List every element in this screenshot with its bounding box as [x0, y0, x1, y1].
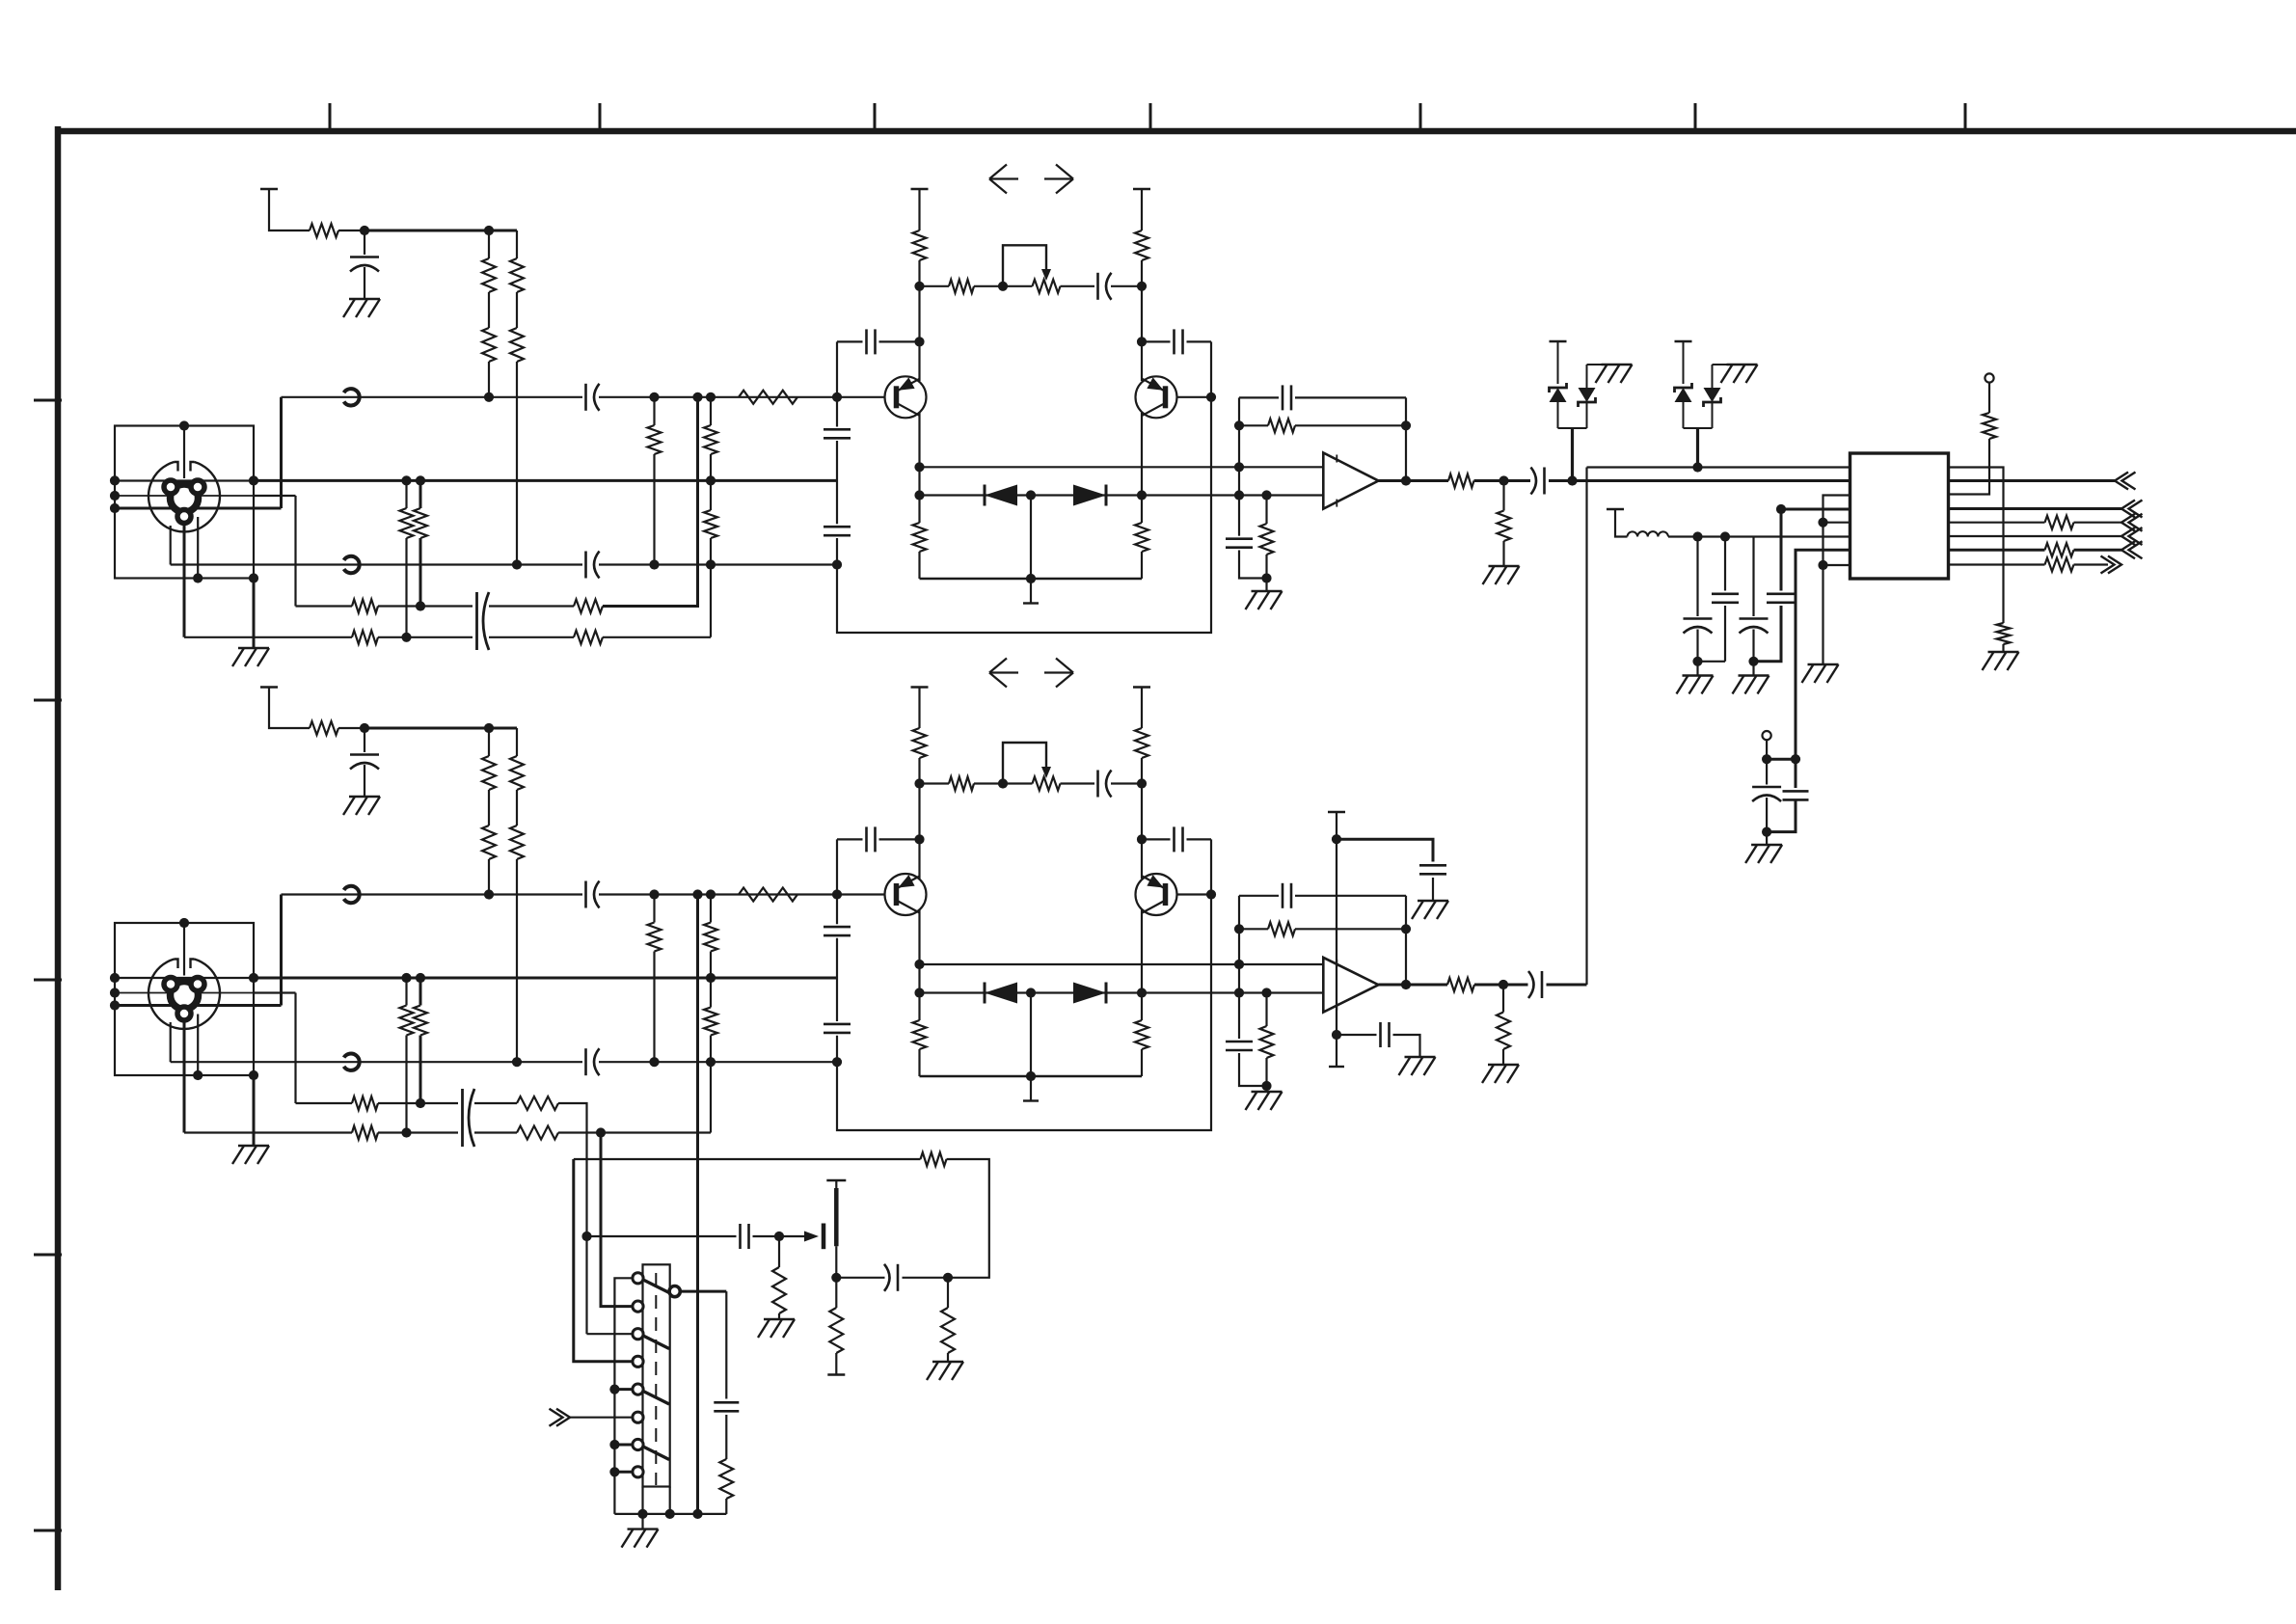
potentiometer VR1 wiper ch1 [1003, 245, 1046, 285]
switch K1 throw 1 [643, 1280, 669, 1293]
wire diode center down ch2 [1030, 993, 1032, 1077]
ground elec [1751, 844, 1782, 846]
capacitor C28 fb opamp ch2 [1282, 883, 1284, 908]
wire decouple c2 [1752, 630, 1754, 662]
wire diode row ch2 [920, 991, 1324, 993]
switch K1 contact 5 [633, 1384, 643, 1394]
wire pair a bot ch1 [405, 538, 407, 637]
jfet Q5 gate arrow [804, 1232, 819, 1242]
contact cold ch2 [344, 1054, 360, 1070]
wire cold riser ch1 [170, 526, 172, 565]
wire Q4 emitter ch2 [1141, 910, 1143, 1021]
node fb base right ch2 [1206, 889, 1216, 899]
node J2 pin1 left [110, 1000, 120, 1010]
node rail sw3 [665, 1509, 675, 1519]
wire Q1 emitter bot ch1 [918, 552, 920, 579]
wire res hot-cold top ch2 [653, 895, 655, 923]
wire J1 shield stem [183, 426, 185, 479]
wire decouple a [1696, 537, 1698, 617]
node J1 box bottom b [249, 573, 258, 582]
node diode row left ch2 [914, 988, 924, 997]
node plus gnd ch1 [1261, 573, 1271, 582]
ground opamp plus ch2 [1252, 1091, 1283, 1093]
node hot thick ch1 [692, 392, 702, 402]
node fb res right ch2 [1401, 924, 1411, 934]
node J2 shield top [179, 918, 189, 928]
wire J1 ground stem [253, 579, 256, 649]
wire chain B ch1 [516, 230, 518, 258]
capacitor C4 big electrolytic ch1 [475, 592, 478, 650]
node hot fb ch2 [832, 889, 842, 899]
node pair a r2 ch2 [401, 1127, 411, 1137]
resistor R33 phantom ch2 [510, 756, 524, 790]
ground phantom ch2 [349, 796, 380, 798]
wire riser pin3 ch2 [294, 993, 296, 1104]
node J2 box bottom b [249, 1070, 258, 1080]
wire elec a2 [1766, 798, 1768, 832]
wire contact1 link [614, 1278, 633, 1514]
capacitor C2 hot ch1 [584, 384, 587, 411]
wire r1 row ch2 c [474, 1102, 517, 1104]
resistor R19 emitter ch1 [913, 523, 927, 552]
wire res branch2 [725, 1499, 727, 1514]
wire dec rail ab [1698, 661, 1726, 663]
node plus gnd ch2 [1261, 1081, 1271, 1091]
capacitor C30 supply ch2 [1419, 864, 1446, 867]
section arrow left top [989, 177, 1018, 179]
wire decouple a2 [1696, 630, 1698, 662]
node diode row right ch2 [1137, 988, 1147, 997]
wire cold row ch1 a [171, 563, 582, 565]
wire jfet source [835, 1246, 837, 1278]
wire chain B mid ch1 [516, 292, 518, 328]
wire fb top row ch1 [1239, 396, 1279, 398]
IC U2 box [1850, 453, 1949, 579]
resistor R6 input ch1 [648, 425, 662, 454]
node chain737 bus ch1 [706, 475, 716, 485]
wire J2 pin stub down [197, 1015, 199, 1076]
wire chain B ch2 [516, 728, 518, 756]
wire emitter rail ch1 [920, 578, 1143, 581]
wire IC rpin8 [1949, 563, 2045, 565]
wire fb res lead2 [947, 1353, 949, 1362]
wire fb res row ch2 a [1239, 928, 1268, 930]
wire C19 to ground [364, 765, 365, 797]
wire phantom ch2 to chains [365, 727, 517, 730]
resistor R53 out load ch2 [1497, 1013, 1510, 1050]
tvs diode pair D6 ground [1727, 364, 1758, 365]
node plus res top ch2 [1261, 988, 1271, 997]
switch K1 contact 4 [633, 1356, 643, 1367]
wire pair a ch2 [405, 978, 407, 1006]
wire r1 row ch1 d [603, 397, 698, 607]
wire inductor out [1668, 535, 1850, 537]
capacitor C15 decouple [1740, 617, 1769, 620]
wire contact8 stub [614, 1471, 633, 1474]
connector chevron out1 [2115, 473, 2128, 490]
node J2 box bottom a [193, 1070, 203, 1080]
node gain right ch1 [1137, 282, 1147, 291]
node link c7 [609, 1440, 619, 1449]
wire out load gnd ch1 [1502, 541, 1504, 566]
wire filter vert ch2 a [836, 839, 838, 924]
wire IC rpin7 [1949, 549, 2045, 552]
node tvs2 tap [1692, 462, 1702, 472]
node chain A top ch1 [484, 226, 494, 235]
wire supply cap wire ch2 [1337, 839, 1433, 861]
node cold fb ch1 [832, 559, 842, 569]
wire cap C19 lead [364, 728, 365, 752]
capacitor C3 cold ch1 [584, 552, 587, 579]
wire cold row ch1 c [599, 563, 837, 565]
wire fb res row ch1 b [1295, 424, 1406, 426]
terminal T amp ch2 right [1133, 686, 1150, 688]
wire row1000 ch2 [920, 963, 1324, 965]
node source cap right [943, 1273, 953, 1283]
wire fb cap left lead2 ch1 [879, 340, 920, 342]
wire r2 row ch1 b [378, 636, 473, 638]
wire r1 row ch2 a [296, 1102, 353, 1104]
node supply tap2 ch2 [1332, 1030, 1341, 1040]
node diode row right ch1 [1137, 490, 1147, 500]
wire elec gnd stem [1766, 832, 1768, 845]
resistor R14 ch1 [352, 631, 378, 644]
wire r2 row ch2 d [558, 1131, 711, 1133]
wire riser hot ch2 [280, 895, 283, 1006]
capacitor C8 filter ch1 [824, 428, 851, 431]
ground IC [1808, 663, 1839, 665]
wire source cap lead2 [903, 1277, 949, 1279]
wire chain737 b ch2 [710, 952, 712, 1008]
wire cap branch [725, 1291, 727, 1398]
ground J1 ch1 [238, 647, 269, 649]
node pair a r2 ch1 [401, 633, 411, 642]
wire upper row to IC [1587, 466, 1850, 468]
wire phantom ch2 node [338, 727, 365, 729]
wire decouple b [1724, 537, 1726, 591]
wire chain A ch1 [488, 230, 490, 258]
border tick left 5 [34, 1529, 62, 1532]
diode D2 ch1 [1073, 485, 1106, 506]
wire cold riser ch2 [170, 1022, 172, 1062]
node rail sw2 [637, 1509, 647, 1519]
wire plus res lead ch2 [1265, 993, 1267, 1027]
node link c5 [609, 1385, 619, 1394]
wire ch2 riser [1585, 468, 1587, 986]
node chain A hot ch1 [484, 392, 494, 402]
border tick left 4 [34, 1254, 62, 1257]
resistor R2 phantom ch1 [482, 258, 496, 292]
capacitor C14 decouple [1712, 592, 1739, 595]
resistor R18 gain ch1 [949, 280, 974, 293]
node r2 switch tap ch2 [596, 1127, 606, 1137]
wire gain row ch2 a [920, 782, 950, 784]
wire r2 row ch1 d [603, 636, 711, 638]
switch K1 throw 4 [643, 1447, 669, 1460]
wire plus res lead2 ch2 [1265, 1058, 1267, 1092]
resistor R26 pullup [1983, 413, 1996, 439]
wire IC rpin7b [2074, 549, 2122, 552]
potentiometer VR2 wiper ch2 [1003, 743, 1046, 784]
wire fb cap left lead2 ch2 [879, 838, 920, 840]
capacitor C25 fb ch2 [1173, 826, 1175, 852]
wire J2 ground stem [253, 1075, 256, 1146]
wire supply cap gnd ch2 [1432, 878, 1434, 901]
wire gain row ch2 b [974, 782, 1033, 784]
node phantom ch2 [360, 723, 369, 733]
wire elec a [1766, 759, 1768, 784]
wire elec stem [1766, 740, 1768, 759]
capacitor C19 phantom bypass ch2 [350, 753, 379, 756]
wire phantom ch2 feed [269, 688, 310, 729]
tvs diode pair D5 [1550, 340, 1567, 342]
node pair b bus ch2 [416, 973, 425, 983]
node out ch1 [1401, 475, 1411, 485]
resistor R30 phantom feed ch2 [310, 721, 338, 735]
wire IC rpin3 [1949, 439, 1990, 495]
wire J1 pin1 stem [183, 525, 186, 637]
wire gate pulldown lead2 [778, 1313, 780, 1319]
wire res hot-cold top ch1 [653, 397, 655, 425]
wire amp left vert ch2 [918, 758, 920, 879]
wire amp left vert ch1 [918, 260, 920, 381]
node chain A top ch2 [484, 723, 494, 733]
wire amp supply right ch2 [1141, 688, 1143, 729]
connector J2 XLR ch2 pins [171, 982, 199, 1010]
wire fb row jfet b [947, 1159, 989, 1278]
connector chevron out6 [2108, 556, 2121, 574]
wire chain A bot ch1 [488, 362, 490, 397]
node gate [774, 1232, 784, 1241]
contact hot ch1 [344, 389, 360, 405]
wire hot row ch2 a [282, 893, 583, 895]
wire chain737 c ch1 [710, 538, 712, 637]
ground J2 ch2 [238, 1145, 269, 1147]
border tick top 7 [1964, 103, 1967, 128]
capacitor C5 gain ch1 [1096, 273, 1099, 300]
wire supply cap2 wire ch2 [1337, 1034, 1377, 1036]
wire out ch2 b [1474, 984, 1528, 987]
capacitor C16 vcc [1767, 592, 1796, 595]
resistor R31 phantom ch2 [482, 756, 496, 790]
capacitor C7 fb ch1 [1173, 329, 1175, 354]
capacitor C32 out ch2 [1528, 971, 1534, 998]
wire contact4 riser [574, 1159, 634, 1362]
node pot left ch2 [998, 778, 1008, 788]
transistor Q4 ch2 [1136, 874, 1177, 915]
connector J1 XLR ch1 pin2 wire [115, 479, 254, 481]
node diode row left ch1 [914, 490, 924, 500]
wire r1 row ch2 d [558, 1103, 587, 1334]
resistor R4 phantom ch1 [510, 258, 524, 292]
node rail sw4 [692, 1509, 702, 1519]
wire cap C1 lead [364, 230, 365, 255]
wire cold row ch2 a [171, 1061, 582, 1063]
node J1 pin3 left [110, 491, 120, 501]
node hot fb ch1 [832, 392, 842, 402]
wire row484 ch1 [920, 466, 1324, 468]
wire bus row ch1 [254, 479, 837, 482]
wire r2 row ch2 c [474, 1131, 517, 1133]
wire decouple c [1752, 537, 1754, 617]
ground pulldown [1988, 651, 2019, 653]
resistor R15 ch1 [574, 631, 603, 644]
wire r1 row ch1 a [296, 605, 353, 607]
node supply tap1 ch2 [1332, 834, 1341, 844]
node coll left ch2 [914, 834, 924, 844]
wire out ch1 c [1549, 479, 1850, 482]
node chain737 bus ch2 [706, 973, 716, 983]
node gate row tap [581, 1232, 591, 1241]
resistor R49 emitter ch2 [1135, 1020, 1148, 1049]
border tick left 1 [34, 399, 62, 402]
ground out load ch1 [1489, 565, 1520, 567]
resistor R34 phantom ch2 [510, 826, 524, 859]
border tick top 4 [1149, 103, 1152, 128]
switch K1 throw 2 [643, 1336, 669, 1349]
wire r2 row ch1 c [489, 636, 574, 638]
wire gain row ch2 d [1111, 782, 1142, 784]
node plus tap ch2 [1234, 988, 1244, 997]
wire hot row ch2 d [837, 893, 885, 895]
ground opamp plus ch1 [1252, 590, 1283, 592]
resistor R48 emitter ch2 [913, 1020, 927, 1049]
capacitor C33 gate [739, 1224, 742, 1249]
diode D1 ch1 [985, 485, 1017, 506]
resistor R32 phantom ch2 [482, 826, 496, 859]
wire pulldown gnd [2002, 644, 2004, 652]
resistor R42 ch2 [517, 1096, 558, 1110]
wire amp right vert ch2 [1141, 758, 1143, 879]
resistor R16 collector ch1 [913, 230, 927, 260]
node ind a [1692, 531, 1702, 541]
connector J2 XLR ch2 shell [149, 960, 220, 1029]
node J1 pin1 left [110, 503, 120, 513]
ground decouple cd [1739, 674, 1769, 676]
wire out div down ch1 [1502, 481, 1504, 511]
wire IC rpin5 [1949, 522, 2045, 524]
wire plus res lead ch1 [1265, 496, 1267, 525]
wire hot row ch1 a [282, 396, 583, 398]
node pot left ch1 [998, 282, 1008, 291]
resistor R36 input ch2 [704, 923, 717, 952]
wire r1 row ch1 b [378, 605, 473, 607]
wire IC pin 541 [1823, 522, 1850, 524]
wire emitter rail ch2 [920, 1075, 1143, 1078]
resistor R1 phantom feed ch1 [310, 224, 338, 237]
ground phantom ch1 [349, 298, 380, 300]
wire J2 shield stem [183, 923, 185, 976]
node coll right ch1 [1137, 337, 1147, 346]
capacitor C31 supply ch2 [1379, 1022, 1382, 1047]
resistor R17 collector ch1 [1135, 230, 1148, 260]
border tick top 1 [329, 103, 332, 128]
capacitor C18 elec [1783, 790, 1809, 793]
wire filter vert ch1 b [836, 441, 838, 524]
resistor R43 ch2 [352, 1126, 378, 1140]
capacitor C22 big electrolytic ch2 [461, 1089, 464, 1147]
terminal T amp ch1 left [911, 188, 929, 190]
terminal T jfet drain [826, 1179, 846, 1181]
wire out ch1 b [1474, 479, 1531, 482]
wire IC vcc pin [1781, 508, 1850, 511]
node cold chain ch1 [706, 559, 716, 569]
capacitor C1 phantom bypass ch1 [350, 256, 379, 258]
node cold fb ch2 [832, 1057, 842, 1067]
wire fb top row ch2 b [1295, 895, 1406, 897]
wire riser pin3 ch1 [294, 496, 296, 607]
wire source res lead2 [835, 1353, 837, 1375]
resistor R21 fb ch1 [1268, 419, 1295, 432]
wire gate pulldown lead [778, 1236, 780, 1267]
resistor R41 ch2 [352, 1096, 378, 1110]
border tick top 3 [874, 103, 877, 128]
wire pair b bot ch2 [419, 1036, 422, 1104]
node hot res1 ch2 [649, 889, 659, 899]
jfet Q5 [822, 1224, 826, 1250]
tvs diode pair D5 ground wire [1609, 364, 1617, 365]
capacitor C26 filter ch2 [824, 926, 851, 929]
capacitor C9 filter ch1 [824, 526, 851, 528]
node plus res top ch1 [1261, 490, 1271, 500]
wire fb top row ch2 [1239, 895, 1279, 897]
switch K1 box [643, 1264, 670, 1486]
connector chevron out3 [2121, 514, 2135, 531]
node J1 shield top [179, 420, 189, 430]
wire plus rc ch2 [1238, 993, 1240, 1040]
wire gate row [587, 1235, 737, 1237]
resistor R54 jfet fb [921, 1152, 947, 1166]
wire pair b ch2 [419, 978, 422, 1006]
wire amp supply right ch1 [1141, 189, 1143, 230]
wire out ch2 c [1547, 984, 1587, 987]
switch K1 throw 3 [643, 1392, 669, 1405]
node pair a bus ch2 [401, 973, 411, 983]
switch K1 box legs [641, 1487, 643, 1514]
op-amp U1B ch2 [1323, 958, 1378, 1013]
node gain right ch2 [1137, 778, 1147, 788]
resistor R20 emitter ch1 [1135, 523, 1148, 552]
resistor R58 switch [719, 1459, 733, 1499]
wire pair a bot ch2 [405, 1036, 407, 1133]
wire fb cap right lead ch1 [1142, 340, 1171, 342]
node cold chain ch2 [706, 1057, 716, 1067]
connector J1 XLR ch1 pin3 wire [115, 495, 254, 497]
resistor R52 out ch2 [1447, 978, 1474, 991]
wire phantom ch1 to chains [365, 230, 517, 232]
wire Q2 base ch1 [1177, 396, 1212, 398]
resistor R37 input ch2 [704, 1008, 717, 1036]
wire r1 row ch1 c [489, 605, 574, 607]
switch K1 contact 8 [633, 1467, 643, 1477]
tvs diode pair D6 ground wire [1735, 364, 1742, 365]
resistor R27 series [2045, 516, 2074, 529]
wire pin1 row ch1 [254, 507, 282, 510]
wire fb cap right lead2 ch2 [1187, 838, 1212, 840]
node ind b [1720, 531, 1730, 541]
ground gate [764, 1318, 795, 1320]
connector J2 XLR ch2 box [115, 923, 254, 1075]
wire J1 pin stub down [197, 517, 199, 579]
node chain A hot ch2 [484, 889, 494, 899]
resistor R28 series [2045, 543, 2074, 556]
wire Q4 base ch2 [1177, 893, 1212, 895]
node fb res right ch1 [1401, 420, 1411, 430]
terminal open circle elec [1763, 731, 1771, 740]
wire hot row ch1 d [837, 396, 885, 398]
resistor R25 pulldown [1997, 623, 2011, 644]
node diode center ch2 [1026, 988, 1036, 997]
